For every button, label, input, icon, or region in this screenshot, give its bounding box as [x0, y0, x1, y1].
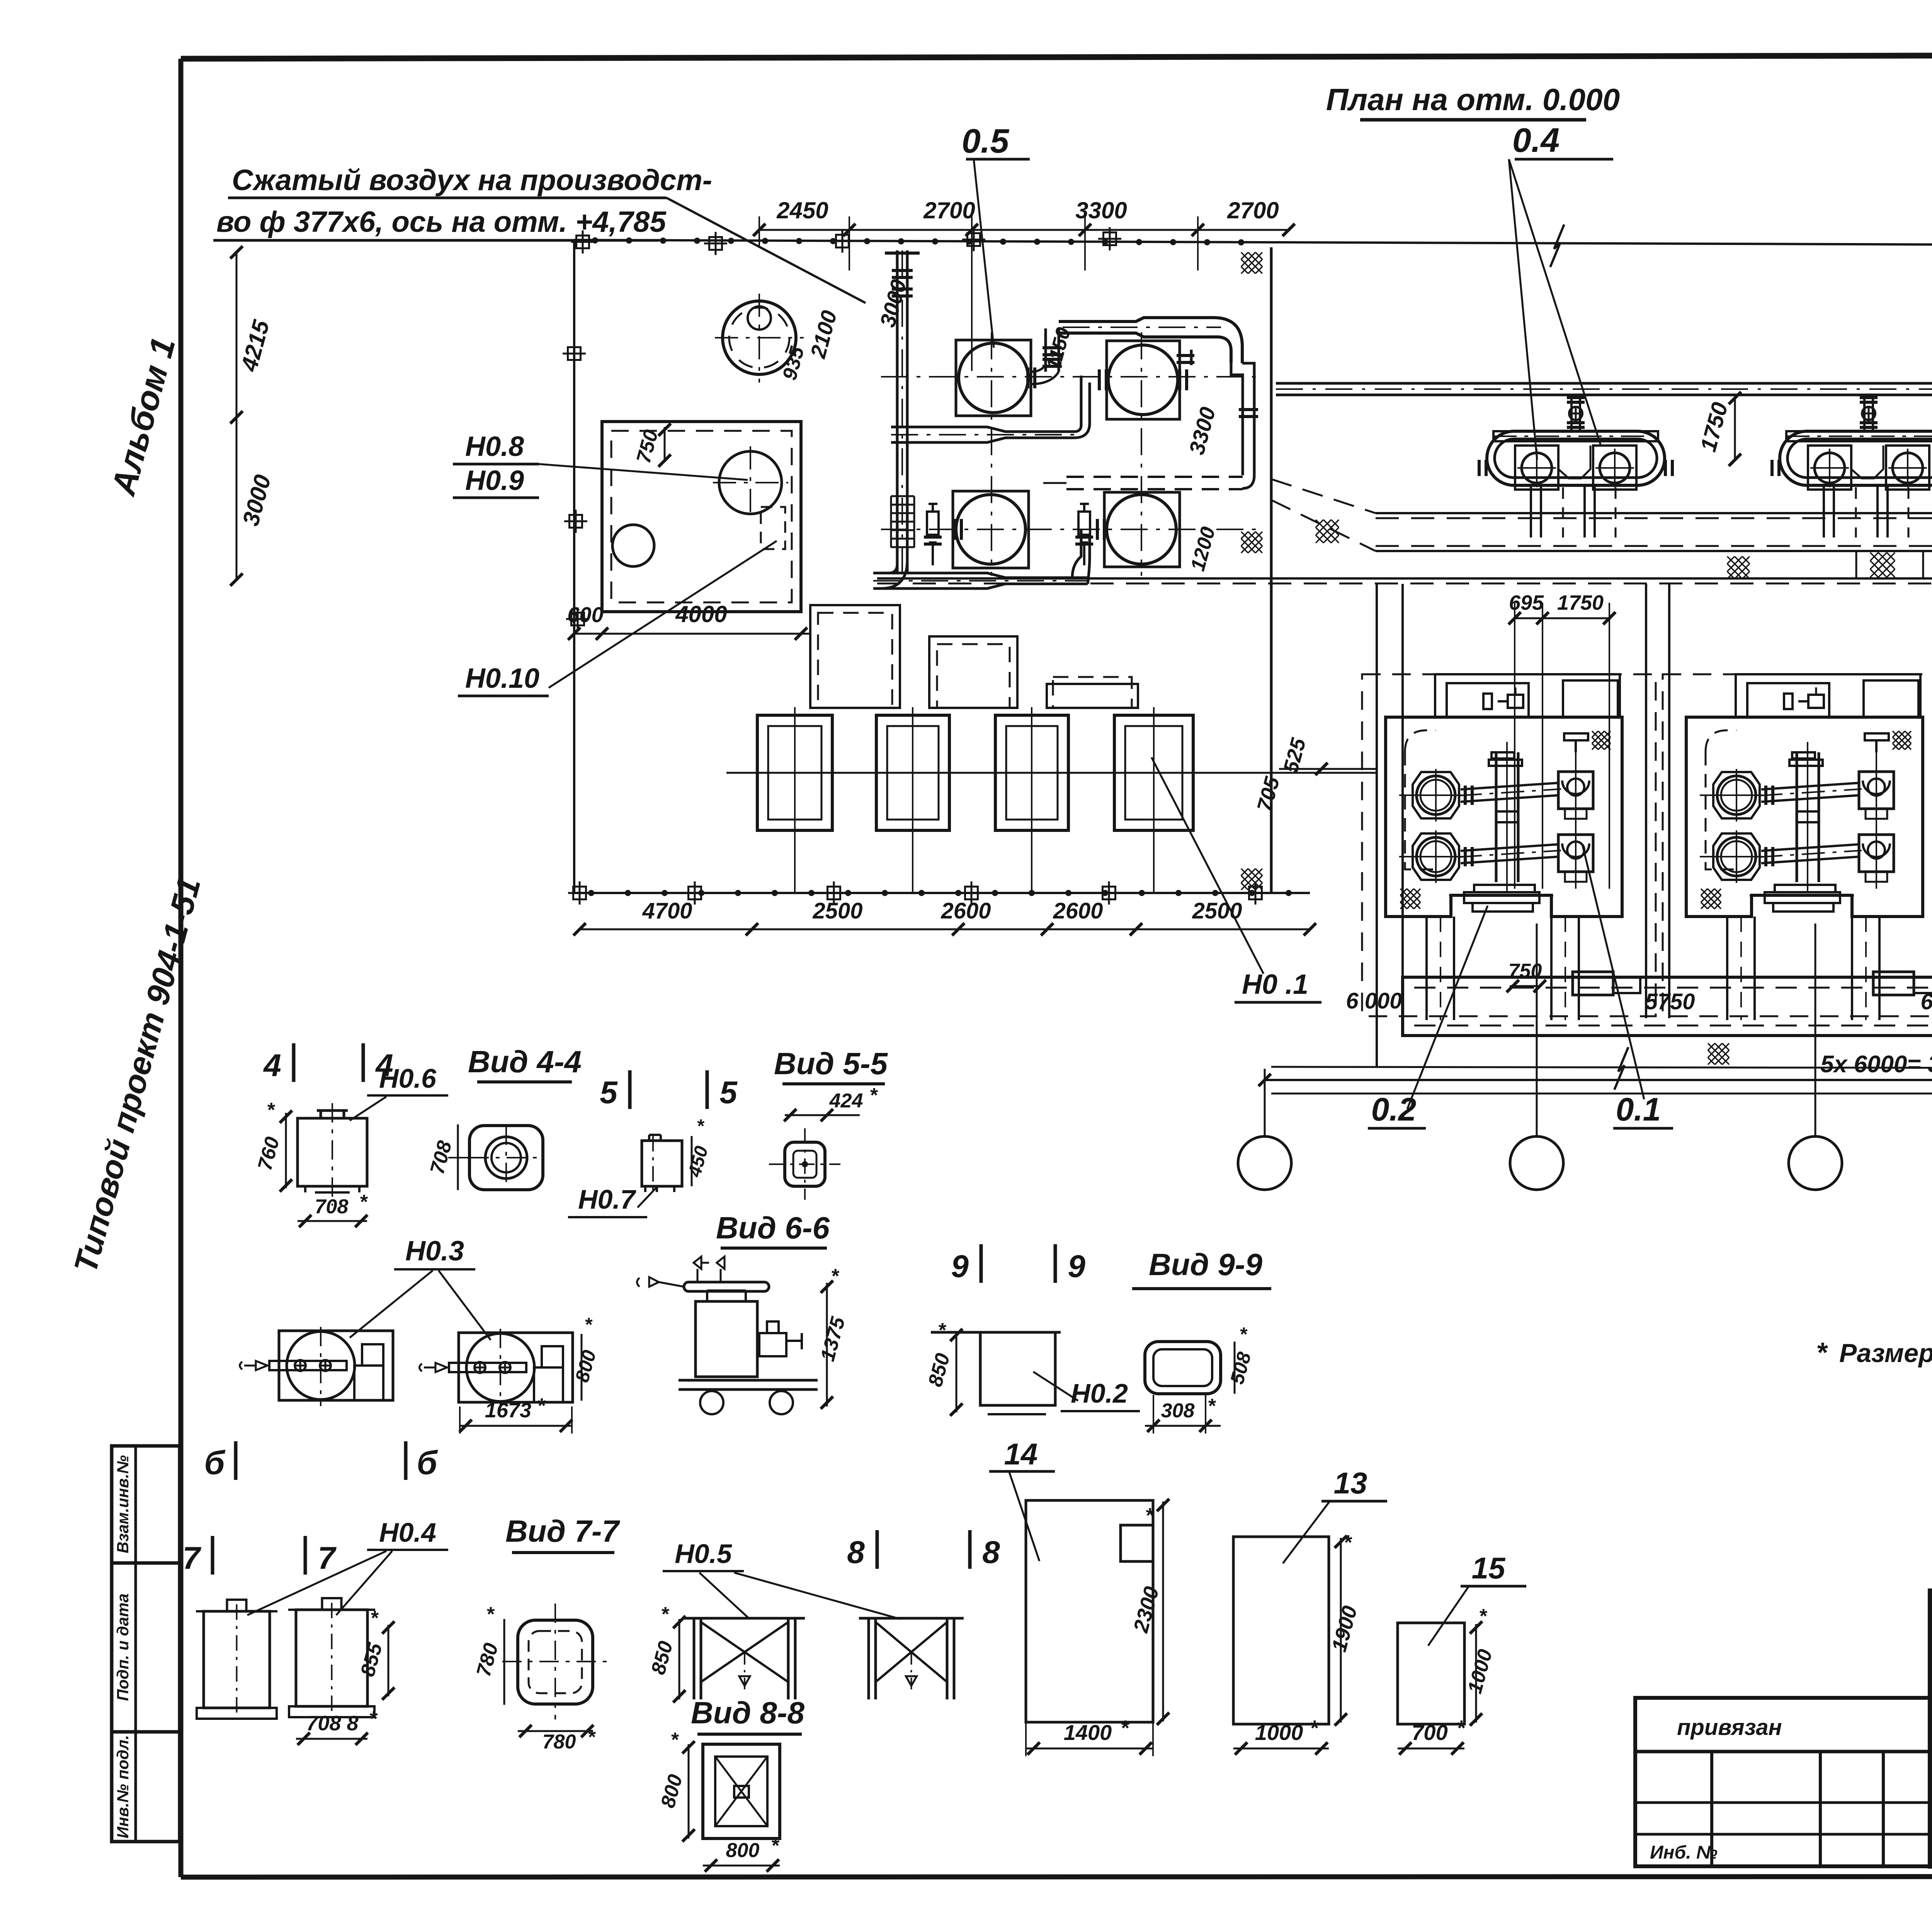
pump unit P1 circle [287, 1332, 355, 1400]
svg-text:13: 13 [1334, 1466, 1367, 1500]
pump circle N0.8 [719, 451, 782, 514]
foundation block F2 [876, 715, 949, 830]
svg-text:*: * [1310, 1716, 1319, 1740]
machine unit M2 right centerline [1876, 742, 1877, 889]
machine unit M2 legs below [1726, 917, 1728, 1020]
dimension 600/4000 below equipment room [574, 633, 811, 635]
signature table rows [1930, 1616, 1932, 1842]
machine unit M1 foundation outline [1386, 717, 1622, 917]
cart top valves [694, 1257, 709, 1269]
leaders N0.5 [699, 1573, 750, 1619]
svg-text:1400: 1400 [1064, 1720, 1112, 1745]
compressor K3 circle [956, 495, 1026, 564]
section mark 7-7 [211, 1536, 214, 1575]
svg-text:*: * [486, 1603, 495, 1626]
svg-text:План на отм. 0.000: План на отм. 0.000 [1326, 82, 1620, 117]
section mark б-б [234, 1441, 238, 1480]
svg-text:*: * [670, 1729, 679, 1751]
dimension 800* right of P2 [581, 1334, 583, 1401]
dimension 1900* right of 13 [1340, 1538, 1342, 1723]
cable channel 1 bottom edge [1376, 545, 1932, 547]
svg-text:*: * [369, 1707, 378, 1730]
svg-text:Н0.7: Н0.7 [578, 1184, 636, 1214]
box N0.2 front view [931, 1331, 1061, 1334]
machine unit M1 legs below [1425, 917, 1428, 1020]
long line below strip with break [1271, 1067, 1932, 1069]
machine unit M1 hatch patches [1400, 889, 1420, 909]
svg-text:*: * [1343, 1531, 1352, 1554]
dimension 424* above [785, 1114, 860, 1116]
small table privyazan [1635, 1698, 1930, 1866]
dimension 1000* below 13 [1233, 1748, 1329, 1750]
svg-text:Инб. №: Инб. № [1650, 1842, 1718, 1863]
svg-text:Н0.8: Н0.8 [465, 431, 524, 462]
section mark 9-9 [980, 1244, 983, 1283]
pump unit P2 inlet valve [435, 1363, 447, 1372]
svg-text:*: * [1145, 1504, 1154, 1527]
dimension 850* left of box [956, 1332, 957, 1412]
svg-text:800: 800 [726, 1839, 760, 1862]
trench diagonal connector [1271, 479, 1376, 513]
equipment room inner dashed outline [611, 431, 792, 602]
mid horizontal pipe [891, 427, 1074, 442]
column crosses on south wall [568, 892, 591, 894]
svg-text:2600: 2600 [1053, 898, 1103, 923]
tank N0.8 circle [723, 301, 796, 374]
cart unit view 6-6 cylinder [696, 1301, 757, 1377]
svg-text:*: * [267, 1099, 276, 1121]
pump unit P2 base [459, 1333, 573, 1402]
dimension 750 small near M1 [1510, 985, 1541, 987]
cable channel 1 top edge [1376, 512, 1932, 514]
machine unit M1 side block [1573, 972, 1613, 995]
svg-text:15: 15 [1472, 1551, 1506, 1585]
svg-text:*: * [584, 1314, 593, 1335]
pipe C2 to big pipe stub [1179, 350, 1181, 365]
foundation block F4 [1114, 715, 1193, 830]
svg-text:Сжатый воздух на производст: Сжатый воздух на производст- [232, 164, 712, 197]
leader 0.5 to K1 [974, 159, 994, 348]
svg-text:*: * [938, 1319, 947, 1342]
bottom dimension line 5x6000 [1265, 1079, 1932, 1081]
machine unit M2 hatch patches [1701, 889, 1721, 909]
channel 2 bottom solid [877, 577, 1932, 580]
compressor K3 foundation [953, 491, 1029, 568]
machine unit M1 right bearing blocks [1558, 772, 1593, 809]
svg-text:*: * [1479, 1605, 1488, 1628]
svg-text:1000: 1000 [1255, 1720, 1303, 1745]
svg-text:14: 14 [1004, 1437, 1038, 1471]
svg-text:Вид 5-5: Вид 5-5 [774, 1046, 888, 1081]
leader 0.4 to T1 [1509, 159, 1600, 444]
flange on drop pipe [1239, 408, 1258, 411]
svg-text:780: 780 [543, 1731, 576, 1753]
svg-text:Инв.№ подл.: Инв.№ подл. [114, 1735, 132, 1838]
machine unit M2 dashed inner box [1706, 730, 1736, 869]
dimension 700* below 15 [1398, 1748, 1464, 1750]
compressor K2 circle [1108, 345, 1178, 415]
svg-text:*: * [1120, 1716, 1129, 1740]
machine unit M2 top small valve [1865, 733, 1889, 740]
inter-unit duct verticals [1645, 584, 1647, 1018]
bottom horizontal pipe [873, 573, 1088, 588]
cart top flange plate [684, 1282, 769, 1291]
machine unit M1 control panel above [1435, 674, 1620, 718]
tank N0.6 front view [298, 1118, 367, 1186]
valve K4 inlet gate [1080, 503, 1089, 505]
leaders N0.3 [350, 1270, 433, 1338]
pipe flange pair upper [892, 269, 913, 272]
note leader line [667, 198, 866, 303]
duct top view rounded square 780 [518, 1620, 593, 1704]
svg-text:Н0.4: Н0.4 [379, 1517, 436, 1548]
compressor K2 foundation [1107, 341, 1180, 419]
svg-text:Вид 7-7: Вид 7-7 [505, 1514, 620, 1548]
bin unit B2 [288, 1609, 375, 1611]
svg-text:3300: 3300 [1075, 197, 1127, 223]
heat exchanger T2 body [1772, 431, 1932, 490]
svg-text:7: 7 [318, 1541, 337, 1576]
valve stacks above exchangers [1570, 395, 1573, 430]
dimension 708 left of top view [457, 1124, 459, 1190]
east wall pilaster hatch top [1241, 252, 1262, 274]
mid pipe elbow up to K2 [1074, 376, 1090, 438]
svg-text:Н0.3: Н0.3 [405, 1236, 464, 1267]
equipment room rectangle [602, 422, 801, 612]
air duct section rounded rect [1145, 1342, 1221, 1394]
column crosses on west wall [563, 353, 586, 355]
svg-text:8: 8 [847, 1535, 865, 1570]
section mark 5-5 [628, 1070, 632, 1109]
compressor K4 foundation [1104, 492, 1180, 567]
channel 2 bottom dashed [877, 583, 1932, 585]
section mark 4-4 [292, 1043, 296, 1082]
dimension 780* below [518, 1730, 593, 1732]
air duct riser 3 (dashed) [1047, 684, 1138, 708]
right pipe bottom elbow to dashed run [1066, 476, 1243, 478]
svg-text:*: * [1207, 1395, 1216, 1417]
svg-text:Н0.5: Н0.5 [675, 1539, 732, 1569]
compressor axes centerlines [881, 376, 1264, 378]
dimension 855* right of bins [388, 1625, 389, 1696]
line break symbol on row A [1550, 224, 1564, 267]
west wall line [573, 240, 575, 893]
svg-text:б: б [204, 1444, 226, 1481]
svg-text:5х 6000= 30 000: 5х 6000= 30 000 [1820, 1051, 1932, 1078]
dashed enclosure around machine row [1362, 674, 1656, 1016]
dimension 780* left [503, 1619, 505, 1705]
dimension 695/1750 above M1 [1515, 617, 1611, 619]
main vertical air pipe [896, 250, 899, 572]
air duct riser 1 (dashed) [810, 605, 900, 708]
machine unit M2 side block [1873, 972, 1914, 995]
svg-text:Вид 4-4: Вид 4-4 [468, 1044, 582, 1079]
leader N0.1 [1151, 757, 1264, 974]
tank N0.6 top view rounded square [469, 1126, 543, 1190]
grid line top (row A) with dots [574, 237, 1932, 247]
dimension 850* left of stand [679, 1619, 680, 1699]
svg-text:5750: 5750 [1645, 989, 1695, 1014]
svg-text:б: б [417, 1444, 438, 1481]
bottom dimension line of compressor room [580, 929, 1310, 930]
svg-text:Вид 6-6: Вид 6-6 [716, 1211, 830, 1245]
equipment 15 outline [1398, 1623, 1464, 1724]
svg-text:*: * [1816, 1337, 1828, 1368]
heat exchanger T2 legs [1824, 485, 1908, 537]
section mark 8-8 [876, 1530, 879, 1569]
dimension 450* right of cylinder [691, 1136, 693, 1186]
title block outer frame [1930, 1591, 1932, 1866]
svg-text:*: * [537, 1394, 546, 1417]
svg-text:1673: 1673 [485, 1399, 531, 1422]
svg-text:4: 4 [263, 1048, 281, 1083]
air duct riser 2 (dashed) [929, 636, 1017, 708]
svg-text:*: * [587, 1726, 596, 1748]
trench hatch patches [1316, 520, 1339, 543]
machine unit M1 pedestal [1474, 885, 1535, 892]
heat exchanger T1 body [1479, 431, 1672, 490]
cylinder N0.7 front [642, 1141, 682, 1186]
svg-text:424: 424 [829, 1090, 863, 1112]
svg-text:8: 8 [982, 1535, 1000, 1570]
dimension 1673* below pumps [460, 1425, 572, 1427]
machine unit M1 right centerline [1575, 742, 1577, 889]
svg-text:5: 5 [719, 1075, 738, 1110]
svg-text:Н0.6: Н0.6 [379, 1063, 437, 1094]
svg-text:*: * [869, 1084, 878, 1107]
foundation centerlines vertical [794, 707, 796, 893]
equipment 13 outline [1233, 1537, 1329, 1724]
dimension 800* left [688, 1744, 690, 1838]
foundation block F1 [757, 715, 832, 830]
pump unit P2 circle [466, 1333, 534, 1401]
tank nozzle circle [748, 306, 771, 330]
south grid line with dots [574, 890, 1310, 896]
svg-text:Вид 8-8: Вид 8-8 [691, 1696, 804, 1730]
top dimension line 2450/2700/3300/2700 [759, 229, 1289, 231]
svg-text:2450: 2450 [776, 197, 828, 223]
machine unit M2 cylinders [1713, 772, 1760, 818]
machine unit M1 cylinders [1413, 772, 1459, 818]
foundation centerline horizontal [726, 772, 1376, 774]
machine unit M1 top small valve [1564, 733, 1588, 740]
stand top view square with X [703, 1744, 780, 1838]
machine unit M2 central column [1796, 752, 1798, 882]
svg-text:*: * [370, 1607, 379, 1629]
svg-text:1750: 1750 [1557, 591, 1604, 614]
leader from N0.10 [549, 541, 777, 688]
svg-text:*: * [831, 1265, 840, 1287]
svg-text:4700: 4700 [642, 898, 692, 923]
leader from N0.8 to pump [539, 464, 748, 480]
svg-text:*: * [1239, 1323, 1248, 1345]
svg-text:4000: 4000 [675, 601, 727, 627]
svg-text:*: * [697, 1116, 705, 1136]
stand unit S2 [859, 1617, 964, 1620]
cart platform [679, 1379, 818, 1382]
machine unit M1 dashed inner box [1405, 730, 1436, 869]
machine hall west boundary verticals [1376, 584, 1378, 1067]
svg-text:2700: 2700 [1227, 197, 1279, 223]
right pipe jog and drop [1231, 363, 1254, 488]
cart left inlet valve [649, 1277, 659, 1287]
dimension 508* right [1234, 1342, 1236, 1394]
stand unit S1 [684, 1617, 805, 1620]
svg-text:5: 5 [600, 1075, 618, 1110]
svg-text:2500: 2500 [812, 898, 862, 923]
dimension 1400* below 14 [1026, 1748, 1153, 1750]
svg-text:708: 708 [315, 1196, 349, 1218]
svg-text:Взам.инв.№: Взам.инв.№ [114, 1455, 132, 1553]
pump unit P1 shaft [269, 1361, 347, 1370]
pipe top cap [885, 252, 920, 255]
bottom pipe left elbow from main [873, 560, 907, 588]
svg-text:Н0.10: Н0.10 [465, 663, 539, 694]
pump unit P2 shaft [449, 1363, 526, 1372]
tank centerlines [715, 337, 804, 338]
svg-text:привязан: привязан [1677, 1715, 1782, 1740]
svg-text:308: 308 [1161, 1400, 1195, 1422]
foundation strip long rectangle [1403, 977, 1932, 1036]
machine unit M2 right bearing blocks [1859, 772, 1894, 809]
east wall of compressor room [1270, 247, 1273, 893]
svg-text:*: * [1456, 1716, 1466, 1740]
bin unit B1 [196, 1610, 277, 1612]
svg-text:во ф 377х6, ось на отм. +4,78: во ф 377х6, ось на отм. +4,785 [216, 206, 667, 238]
svg-text:0.2: 0.2 [1371, 1091, 1417, 1128]
svg-text:0.5: 0.5 [962, 122, 1009, 160]
bottom pipe elbow up to K4 [1072, 529, 1090, 584]
svg-text:*: * [771, 1835, 780, 1857]
dimension 1000* right of 15 [1475, 1624, 1477, 1723]
dimension 708* below bins [296, 1738, 367, 1740]
pump unit P1 base [279, 1331, 393, 1400]
leaders N0.4 [247, 1551, 386, 1615]
svg-text:Размеры для справок: Размеры для справок [1839, 1338, 1932, 1368]
dimension 2300* right of 14 [1162, 1502, 1164, 1721]
heat exchanger T1 legs [1531, 485, 1616, 537]
svg-text:700: 700 [1412, 1720, 1447, 1745]
equipment 14 outline [1026, 1500, 1153, 1722]
grid circles bottom row [1264, 1069, 1266, 1136]
column crosses on wall A [571, 241, 594, 243]
svg-text:7: 7 [182, 1541, 201, 1576]
svg-text:Вид 9-9: Вид 9-9 [1149, 1247, 1262, 1282]
left attachment table (inv/podp) [112, 1446, 180, 1842]
leader N0.6 [350, 1097, 386, 1121]
svg-text:Подп. и дата: Подп. и дата [114, 1594, 132, 1701]
svg-text:6 000: 6 000 [1346, 988, 1402, 1014]
flange K1 right [1026, 367, 1029, 388]
compressor K1 foundation [956, 340, 1031, 416]
compressor K4 circle [1107, 495, 1176, 564]
svg-text:6500: 6500 [1920, 989, 1932, 1014]
grille ladder symbol [891, 496, 914, 548]
dimension 708* below tank [298, 1220, 367, 1222]
east wall pilaster hatch mid [1241, 532, 1262, 553]
machine unit M2 foundation outline [1686, 717, 1923, 917]
pipe K1 stub to manifold [1044, 328, 1047, 372]
svg-text:9: 9 [1068, 1249, 1085, 1284]
dimension 760* left of tank [285, 1113, 287, 1188]
east wall pilaster hatch low [1241, 869, 1262, 890]
machine unit M1 pipes to right [1461, 783, 1559, 789]
top manifold big pipe [1059, 318, 1242, 363]
dimension 750 equipment room [664, 427, 666, 462]
dimension 800* below [703, 1865, 780, 1867]
pump unit P1 motor blocks [362, 1344, 383, 1366]
svg-text:*: * [359, 1191, 368, 1213]
svg-text:Н0.9: Н0.9 [465, 465, 524, 496]
cart right pump block [759, 1333, 786, 1356]
cart wheels [700, 1391, 723, 1414]
svg-text:708 8: 708 8 [306, 1712, 358, 1735]
svg-text:600: 600 [567, 602, 603, 627]
compressor K1 circle [959, 343, 1028, 413]
machine unit M2 pedestal [1775, 885, 1835, 892]
valve K3 inlet gate [929, 503, 937, 505]
svg-text:9: 9 [951, 1249, 969, 1284]
N0.7 top view small rounded square [785, 1142, 825, 1186]
foundation block F3 [995, 715, 1068, 830]
dimension 308* below [1145, 1425, 1221, 1427]
machine unit M2 control panel above [1736, 674, 1920, 718]
dimension 1375* right of cart [826, 1283, 828, 1406]
long air pipe header [1276, 382, 1932, 385]
svg-text:2600: 2600 [940, 898, 991, 923]
dimension 1750 vertical near T1 [1734, 395, 1736, 461]
channel bridge hatch [1870, 553, 1895, 577]
svg-text:2700: 2700 [923, 197, 975, 223]
pump unit P1 inlet valve [256, 1361, 267, 1370]
vertical dimension line left (4215/3000) [236, 252, 238, 580]
machine unit M1 central column [1495, 752, 1498, 882]
machine unit M2 pipes to right [1761, 783, 1860, 789]
svg-text:Н0 .1: Н0 .1 [1242, 969, 1308, 1000]
svg-text:0.1: 0.1 [1616, 1091, 1661, 1128]
dashed item N0.10 rect [761, 507, 785, 549]
pump circle small [612, 525, 654, 566]
svg-text:*: * [661, 1603, 670, 1626]
row B grid line [1271, 1093, 1932, 1095]
pump unit P2 motor blocks [542, 1346, 563, 1367]
svg-text:0.4: 0.4 [1512, 121, 1560, 159]
svg-text:Н0.2: Н0.2 [1071, 1378, 1128, 1408]
leader 0.4 to pipe [1509, 159, 1537, 460]
